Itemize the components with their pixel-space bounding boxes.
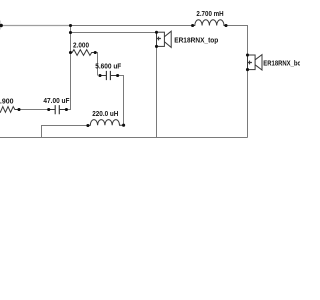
svg-text:47.00 uF: 47.00 uF	[43, 96, 70, 105]
wire R2 to C2	[95, 53, 97, 76]
node C2 right	[116, 74, 119, 77]
resistor R1 1.900 (clipped at left edge)	[0, 107, 19, 113]
wire bottom speaker to bottom rail	[247, 70, 249, 138]
wire vertical bus x=70.5	[66, 26, 70, 110]
node L2 left	[86, 124, 89, 127]
wire C2 to L2	[118, 76, 124, 126]
node R1 right	[17, 108, 20, 111]
wire L2 left lead to bottom rail	[42, 126, 88, 138]
svg-text:2.000: 2.000	[73, 40, 89, 49]
node bottom speaker plus	[246, 53, 249, 56]
wire node to top speaker	[71, 32, 157, 34]
svg-text:5.600 uF: 5.600 uF	[95, 62, 122, 71]
node L1 right	[224, 24, 227, 27]
node top speaker plus	[155, 31, 158, 34]
wire input (light gray)	[1, 25, 70, 27]
inductor L2 220.0 uH	[88, 120, 124, 126]
svg-text:2.700 mH: 2.700 mH	[196, 9, 223, 18]
svg-text:ER18RNX_top: ER18RNX_top	[174, 35, 219, 44]
svg-text:1.900: 1.900	[0, 97, 14, 106]
capacitor C2 5.600 uF	[100, 71, 118, 80]
wire bottom rail	[0, 137, 248, 139]
node L2 right	[122, 124, 125, 127]
speaker ER18RNX_bottom	[248, 55, 263, 70]
speaker ER18RNX_top	[157, 31, 172, 47]
node bus top	[69, 24, 72, 27]
resistor R2 2.000	[71, 50, 96, 56]
node R2 right	[94, 51, 97, 54]
node top speaker minus	[155, 45, 158, 48]
node C1 left	[47, 108, 50, 111]
node bottom speaker minus	[246, 68, 249, 71]
wire top rail to L1	[71, 25, 193, 27]
wire top speaker minus to bottom rail	[156, 46, 158, 137]
node C1 right	[65, 108, 68, 111]
capacitor C1 47.00 uF	[49, 105, 67, 114]
inductor L1 2.700 mH	[193, 20, 226, 26]
node L1 left	[191, 24, 194, 27]
wire input stub (clipped at left edge)	[0, 21, 1, 30]
node bus tap to top speaker	[69, 31, 72, 34]
svg-text:ER18RNX_bottom: ER18RNX_bottom	[263, 59, 300, 68]
wire L1 to right corner down to bottom speaker	[226, 26, 248, 56]
node input	[0, 24, 3, 27]
wire R1 to C1	[19, 109, 49, 111]
svg-text:220.0 uH: 220.0 uH	[92, 109, 118, 118]
node R2 left	[69, 51, 72, 54]
node C2 left	[98, 74, 101, 77]
